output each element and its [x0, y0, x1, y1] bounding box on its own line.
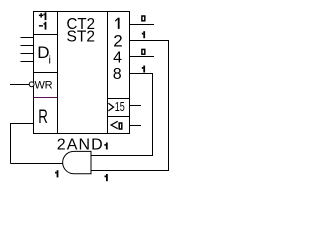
divider below Di box	[34, 72, 58, 74]
svg-text:WR: WR	[35, 80, 53, 92]
svg-text:i: i	[49, 55, 51, 67]
svg-text:8: 8	[113, 66, 122, 83]
wire value label 1 (feedback)	[55, 170, 58, 177]
carry >15 output stub	[130, 105, 142, 107]
label >15	[108, 103, 113, 111]
wire value label 0 (bit4)	[142, 49, 145, 54]
svg-text:2: 2	[113, 32, 122, 51]
wire value label 1 (bit8)	[142, 66, 145, 73]
borrow <0 output stub	[130, 125, 142, 127]
divider between >15 and <0 box	[108, 116, 131, 118]
svg-text:R: R	[38, 107, 48, 128]
output wire bit 4	[130, 56, 155, 58]
output wire bit 2 to AND input B	[92, 41, 169, 171]
label -1	[39, 22, 46, 30]
output wire bit 8 to AND input A	[92, 74, 153, 156]
wire value label 1 (bit2)	[142, 31, 145, 38]
divider below +1/-1 box	[34, 34, 58, 36]
svg-text:ST2: ST2	[67, 29, 96, 46]
label +1	[39, 12, 46, 20]
divider above >15 box	[108, 98, 131, 100]
svg-text:4: 4	[113, 50, 122, 67]
WR input wire	[10, 84, 30, 86]
divider main/output	[107, 12, 109, 134]
D input line 0	[21, 37, 34, 39]
AND gate D1 (mirrored, output left)	[63, 151, 91, 173]
svg-text:15: 15	[115, 99, 125, 114]
feedback wire bottom to AND output	[11, 163, 63, 165]
WR inversion bubble	[29, 82, 34, 87]
label output 1	[115, 18, 120, 29]
output wire bit 1	[130, 24, 155, 26]
wire value label 0 (bit1)	[142, 16, 145, 21]
divider control/main	[57, 12, 59, 134]
R input wire from feedback	[11, 124, 34, 164]
D input line 1	[21, 45, 34, 47]
counter U1 (CT2/ST2) outline	[34, 12, 131, 134]
D input line 3	[21, 61, 34, 63]
wire value label 1 (AND input B)	[105, 174, 108, 181]
divider below WR section (purple)	[34, 97, 58, 99]
label <0	[111, 121, 118, 128]
wire value label 1 (AND input A)	[104, 143, 107, 150]
D input line 2	[21, 53, 34, 55]
svg-text:2AND: 2AND	[57, 137, 104, 154]
